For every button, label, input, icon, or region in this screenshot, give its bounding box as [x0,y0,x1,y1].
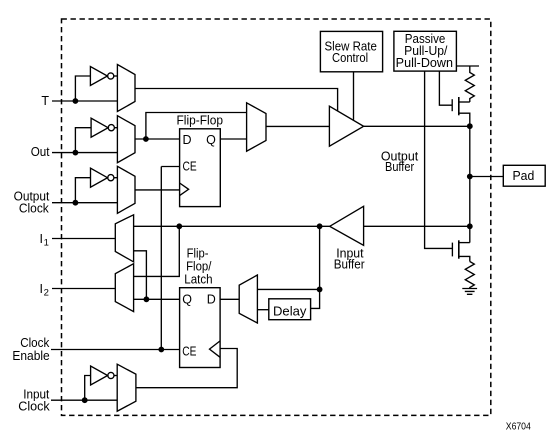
node input wire / rail [467,223,473,229]
svg-text:Latch: Latch [184,272,212,286]
wire delay output to mux M6 [257,309,268,311]
inverter bubble (Out path) [108,125,114,131]
node Clock Enable branch [158,347,164,353]
inverter (Input Clock path) [91,366,108,385]
flip-flop FF2 label [184,246,212,286]
wire passive box to PMOS gate [439,71,452,105]
svg-text:Control: Control [332,51,368,65]
svg-text:Buffer: Buffer [334,258,365,272]
wire T input [52,100,117,102]
svg-text:I: I [40,232,43,246]
wire input buffer output to I-muxes [134,225,330,227]
wire M1 output to output buffer tristate [135,89,338,112]
wire bubble to mux [114,375,117,377]
flip-flop FF1 (output) box [180,129,221,207]
svg-text:Enable: Enable [12,349,49,363]
svg-text:Flip-Flop: Flip-Flop [177,114,224,128]
svg-text:D: D [207,293,216,307]
wire output buffer to pad rail [364,125,470,127]
node I1 mux input tap [176,223,182,229]
wire FF2 Q output to I-muxes [134,298,180,300]
wire Input Clock inverter branch [85,376,91,401]
node Output Clock junction [73,200,79,206]
wire NMOS drain to rail [459,242,470,244]
slew rate control box [320,31,382,71]
wire Output Clock input [52,202,117,204]
svg-text:CE: CE [183,160,197,174]
mux M2 (Out select) [117,116,135,163]
wire passive box to pull-up resistor [456,65,479,67]
svg-text:Buffer: Buffer [385,160,414,174]
node Input Clock junction [82,397,88,403]
wire pad rail to input buffer [364,225,470,227]
svg-text:X6704: X6704 [506,421,531,432]
inverter (T path) [90,67,107,86]
FF1 clock triangle [180,183,189,196]
svg-text:Pull-Down: Pull-Down [396,56,453,70]
svg-text:Flop/: Flop/ [186,259,212,273]
pad box [503,165,545,186]
IOB dashed boundary [62,19,491,415]
resistor pull-up [465,66,474,102]
node Out junction [73,150,79,156]
wire FF1 CE input [161,166,179,168]
node delay bypass tap [317,287,323,293]
wire M3 output to flip-flop clock [135,189,180,191]
svg-text:T: T [41,94,49,108]
inverter bubble (Output Clock path) [108,175,114,181]
flip-flop FF2 (input latch) box [180,288,221,368]
svg-text:CE: CE [182,344,196,358]
svg-text:Out: Out [31,145,50,159]
svg-text:2: 2 [44,288,49,299]
wire Input Clock input [51,399,117,401]
wire M2 output to flip-flop D [135,138,180,140]
wire T inverter branch [75,76,90,101]
mux M1 (T select) [117,65,135,112]
label Slew Rate Control [325,39,377,65]
wire M7 output to I1 [52,238,115,240]
wire bubble to mux [114,127,117,129]
wire M6 output to FF2 D [220,298,239,300]
wire NMOS source to resistor [459,256,470,261]
wire M9 output to FF2 clock [136,349,237,388]
transistor NMOS pull-down channel bar [458,240,460,258]
FF2 clock triangle [210,341,221,357]
svg-text:1: 1 [44,238,49,249]
wire input node to delay [311,226,320,308]
svg-text:Pad: Pad [513,169,535,183]
wire Out input [52,152,117,154]
op-amp output buffer [329,106,363,146]
label Output Clock [14,190,50,216]
inverter bubble (Input Clock path) [108,372,114,378]
node Q output branch [144,296,150,302]
node input buffer output [317,223,323,229]
svg-text:Q: Q [206,133,216,147]
resistor pull-down [465,262,474,289]
mux M7 (I1 select) [115,215,133,262]
inverter (Output Clock path) [91,168,108,187]
wire Q branch to mux M7 [134,251,147,299]
transistor NMOS pull-down gate bar [451,243,453,257]
wire M4 output to output buffer [266,125,329,127]
label Clock Enable [12,336,50,363]
node output wire / rail [467,123,473,129]
svg-text:Clock: Clock [18,399,50,413]
node M2 output junction [143,136,149,142]
svg-text:Clock: Clock [19,201,50,215]
label Input Clock [18,388,50,414]
mux M9 (Input Clock select) [117,364,136,411]
inverter (Out path) [91,118,108,137]
svg-text:Q: Q [182,293,192,307]
wire Out inverter branch [75,128,91,153]
inverter bubble (T path) [108,73,114,79]
wire Clock Enable to FF1 CE [160,167,162,350]
label I1 [40,232,49,249]
transistor PMOS pull-up gate bar [451,99,453,111]
wire slew control to output buffer [353,72,355,120]
wire PMOS source to pad rail [459,113,470,126]
wire bubble to mux [114,75,118,77]
node T junction [73,98,79,104]
wire FF1 Q output [220,138,246,140]
node pad wire / rail [467,174,473,180]
wire pad rail [469,126,471,242]
svg-text:Delay: Delay [273,304,307,318]
label Passive Pull-Up/Pull-Down [396,32,453,70]
ground [462,289,477,295]
wire PMOS drain to resistor [459,101,470,103]
svg-text:Flip-: Flip- [187,246,209,260]
wire input tap to mux M8 [134,226,180,276]
label I2 [40,282,49,299]
op-amp input buffer [330,206,364,245]
svg-text:D: D [183,133,192,147]
wire delay bypass to mux M6 [257,288,319,290]
wire M8 output to I2 [52,288,115,290]
mux M3 (Output Clock select) [117,166,135,213]
wire Clock Enable input [51,349,180,351]
transistor PMOS pull-up channel bar [458,97,460,115]
passive pull-up/pull-down box [394,31,457,71]
delay box [269,299,311,320]
mux M8 (I2 select) [115,264,133,312]
wire rail to pad box [470,176,504,178]
label Input Buffer [334,246,365,271]
wire Output Clock inverter branch [75,178,90,203]
label Output Buffer [381,149,419,174]
wire flip-flop bypass [146,113,247,140]
svg-text:I: I [40,282,43,296]
wire bubble to mux [114,177,118,179]
mux M4 (output select) [247,103,266,151]
wire passive box to NMOS gate [425,71,453,248]
mux M6 (delay select) [239,275,257,323]
